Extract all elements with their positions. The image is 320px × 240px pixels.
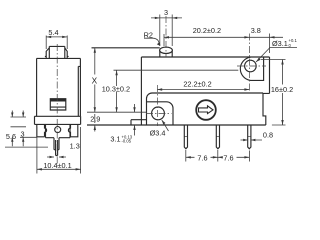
arrows 22.2 bbox=[157, 88, 162, 90]
right view: mark circle with arrow bbox=[196, 100, 216, 120]
right view: pin 3 bbox=[248, 125, 251, 149]
svg-text:3.8: 3.8 bbox=[251, 26, 261, 35]
left view: inner detail box bbox=[50, 99, 66, 110]
arrow 2.9 up at line B bbox=[94, 125, 96, 130]
centerline roller bbox=[165, 16, 167, 57]
right view: mounting boss top-right bbox=[240, 57, 263, 80]
centerline mounting hole horizontal bbox=[237, 65, 266, 67]
arrows 1.3 bbox=[50, 156, 55, 158]
right view: pin 1 bbox=[184, 125, 187, 149]
left view: plunger bbox=[45, 46, 69, 58]
svg-text:0: 0 bbox=[289, 43, 292, 48]
right view: lever arm line bbox=[92, 47, 160, 49]
right view: main body bbox=[147, 93, 270, 125]
ext+dim lines 7,6 bbox=[186, 150, 250, 162]
left view: base bbox=[35, 116, 81, 124]
arrows 3 left bbox=[22, 113, 24, 118]
leader dia3.1 bbox=[256, 48, 297, 63]
arrows 5.4 bbox=[46, 36, 51, 38]
svg-text:7.6: 7.6 bbox=[197, 153, 207, 162]
svg-text:10.4±0.1: 10.4±0.1 bbox=[43, 161, 71, 170]
arrow X/2.9 down at line A bbox=[94, 107, 96, 112]
ext line 10.3 top bbox=[114, 69, 239, 71]
arrows 20.2 bbox=[164, 36, 169, 38]
arrowheads bbox=[11, 17, 284, 171]
arrows 5,6 bbox=[11, 113, 13, 118]
left view: bracket right ear bbox=[68, 124, 77, 136]
dim line 16 bbox=[282, 60, 284, 126]
ext+dim lines 10.4 bbox=[37, 127, 81, 174]
right view: mounting hole bbox=[245, 60, 257, 72]
arrow 3.8 bbox=[270, 36, 275, 38]
centerline left view bbox=[56, 44, 58, 166]
ext line 20.2 left bbox=[163, 34, 165, 46]
ext lines 16 bbox=[261, 60, 286, 126]
left view: bracket hole bbox=[55, 127, 61, 133]
arrows 10.3 bbox=[115, 70, 117, 75]
dim line 3.8 bbox=[249, 36, 283, 38]
svg-text:16±0.2: 16±0.2 bbox=[271, 85, 293, 94]
dim line 5,6 bbox=[11, 111, 13, 147]
arrows 0.8 bbox=[243, 139, 248, 141]
projection line A bbox=[87, 111, 147, 113]
svg-text:3: 3 bbox=[164, 8, 168, 17]
svg-text:Ø3.1: Ø3.1 bbox=[272, 39, 288, 48]
svg-text:7.6: 7.6 bbox=[223, 153, 233, 162]
left view: terminal pin bbox=[56, 140, 58, 156]
arrows 3.1 bbox=[133, 107, 135, 112]
dim line 3 left bbox=[22, 111, 24, 147]
right view: common terminal tab bbox=[131, 120, 147, 125]
svg-text:X: X bbox=[92, 76, 98, 86]
svg-text:2.9: 2.9 bbox=[90, 115, 100, 124]
right view: pivot hole bbox=[152, 107, 165, 120]
svg-text:0.8: 0.8 bbox=[263, 131, 273, 140]
left view: terminal stem bbox=[54, 138, 59, 150]
svg-text:20.2±0.2: 20.2±0.2 bbox=[193, 26, 221, 35]
left view: body bbox=[37, 58, 81, 116]
arrows 3 top bbox=[155, 17, 160, 19]
centerline pivot hole vertical bbox=[157, 85, 159, 126]
right view: body bottom / projection line B bbox=[87, 124, 266, 126]
right view: roller bbox=[160, 47, 173, 53]
svg-text:Ø3.4: Ø3.4 bbox=[150, 129, 166, 138]
right view: pin bend ticks bbox=[184, 135, 251, 137]
centerline mounting hole / pin3 bbox=[248, 34, 250, 92]
svg-text:22.2±0.2: 22.2±0.2 bbox=[183, 80, 211, 89]
ext line 3.8 right bbox=[269, 34, 271, 54]
arrows 16 bbox=[281, 60, 283, 65]
leader dia3.4 bbox=[162, 120, 169, 131]
svg-text:5.4: 5.4 bbox=[48, 28, 58, 37]
svg-text:10.3±0.2: 10.3±0.2 bbox=[102, 85, 130, 94]
svg-text:R2: R2 bbox=[144, 30, 153, 39]
dim line X / 2.9 vertical bbox=[94, 48, 96, 132]
arrow leader dia3.4 bbox=[162, 120, 166, 124]
left view: bracket centre plate bbox=[46, 124, 71, 137]
arrows 7,6 bbox=[186, 156, 191, 158]
svg-text:3: 3 bbox=[20, 129, 24, 138]
ext lines 5.4 bbox=[46, 36, 67, 50]
leader R2 bbox=[144, 38, 160, 45]
arrow leader dia3.1 bbox=[256, 58, 261, 62]
arrows 10.4 bbox=[37, 168, 42, 170]
dim line 5.4 bbox=[46, 36, 67, 38]
left ext lines 3 and 5,6 bbox=[5, 117, 48, 147]
ext line X top bbox=[92, 47, 95, 49]
dimension texts bbox=[6, 8, 298, 170]
dim line 1.3 bbox=[47, 156, 66, 158]
dim line 22.2 bbox=[157, 89, 249, 91]
right view: top plate bbox=[141, 57, 269, 125]
dim line 20.2 bbox=[164, 36, 249, 38]
svg-text:1.3: 1.3 bbox=[70, 141, 80, 150]
centerlines bbox=[57, 16, 266, 166]
svg-text:3.1: 3.1 bbox=[110, 135, 120, 144]
dim line 3.1 vertical bbox=[134, 104, 136, 136]
dim line 10.3 vertical bbox=[116, 70, 118, 112]
svg-text:5.6: 5.6 bbox=[6, 132, 16, 141]
left view: bracket left ear bbox=[37, 124, 47, 136]
centerline pivot hole horizontal bbox=[146, 112, 172, 114]
dim line 0.8 bbox=[241, 139, 263, 141]
ext+dim lines 3 top bbox=[151, 15, 182, 47]
right view: pin 2 bbox=[216, 125, 219, 149]
arrow leader R2 bbox=[157, 43, 161, 46]
arrow X up bbox=[94, 48, 96, 53]
svg-text:-0.05: -0.05 bbox=[122, 139, 132, 144]
right view: boss around pivot hole bbox=[147, 102, 174, 125]
